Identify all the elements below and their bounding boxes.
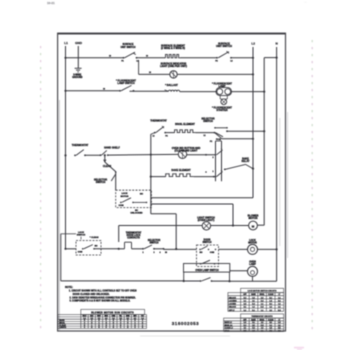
svg-text:X-2: X-2 <box>278 301 281 303</box>
oven light lamp DS3 <box>202 222 210 230</box>
wire: oven light row left corner <box>118 226 120 243</box>
svg-text:P1: P1 <box>121 61 123 63</box>
svg-text:BROIL ELEMENT: BROIL ELEMENT <box>175 123 195 126</box>
wire: lamp row switch to ballast <box>130 90 169 92</box>
surface element (resistor) <box>166 54 181 57</box>
wire: L1 vertical bus <box>65 46 67 249</box>
svg-text:16: 16 <box>146 55 148 57</box>
wire: lock box stub at top of feed <box>61 233 76 235</box>
svg-text:4: 4 <box>160 251 161 254</box>
wire: center bus bottom jog <box>151 213 176 215</box>
svg-text:X-1: X-1 <box>252 310 255 312</box>
svg-text:X-2: X-2 <box>261 301 264 303</box>
svg-text:LAMP: LAMP <box>249 263 256 266</box>
svg-text:1. CIRCUIT SHOWN WITH ALL CON: 1. CIRCUIT SHOWN WITH ALL CONTROLS SET T… <box>69 290 137 293</box>
svg-text:UNLOCKED: UNLOCKED <box>130 212 143 214</box>
svg-text:* CLEAN: * CLEAN <box>90 236 99 239</box>
svg-text:COM: COM <box>210 252 215 254</box>
wire: L2 vertical bus <box>252 47 254 198</box>
wire: blower to neutral branch corner <box>257 224 264 226</box>
svg-text:2: 2 <box>134 327 135 329</box>
junction feed at lamp-switch box left drop <box>183 280 185 282</box>
scan artifact: faint line below sheet <box>140 335 230 337</box>
svg-text:1: 1 <box>84 327 85 329</box>
junction on L1 at door-lock row <box>64 248 66 250</box>
svg-text:1-1: 1-1 <box>278 297 281 299</box>
svg-text:(2 WIRE & 3 WIRE B): (2 WIRE & 3 WIRE B) <box>161 47 185 50</box>
svg-text:L2: L2 <box>251 42 255 46</box>
svg-text:SWITCH: SWITCH <box>203 120 213 123</box>
svg-text:X-1: X-1 <box>252 322 255 324</box>
svg-text:SWITCH: SWITCH <box>77 235 86 237</box>
wire: oven light row middle <box>211 225 249 227</box>
svg-text:1-1: 1-1 <box>270 325 272 327</box>
door lock switch box (dashed) <box>76 241 101 256</box>
junction return line at lamp-switch drop <box>228 280 230 282</box>
svg-text:L1: L1 <box>203 135 205 137</box>
svg-text:X-1: X-1 <box>269 304 272 306</box>
svg-text:(OVEN LIGHT): (OVEN LIGHT) <box>198 219 215 222</box>
svg-text:(CLEAN) IND LIGHT: (CLEAN) IND LIGHT <box>175 149 198 152</box>
svg-text:1-2: 1-2 <box>252 307 255 309</box>
svg-text:THERMOSTAT: THERMOSTAT <box>150 120 167 123</box>
svg-text:2: 2 <box>213 157 214 159</box>
svg-text:LOCK MOTOR SWITCH CIRCUITS: LOCK MOTOR SWITCH CIRCUITS <box>248 291 278 293</box>
svg-text:SWITCH: SWITCH <box>96 181 106 184</box>
wire: oven lamp switch feed (horizontal run) <box>61 280 184 282</box>
junction on L1 at thermostat row <box>64 154 66 156</box>
wire: jog down to door-lock row <box>175 214 177 249</box>
svg-text:LOCKING: LOCKING <box>229 301 237 303</box>
svg-text:1-2: 1-2 <box>278 304 281 306</box>
svg-text:P4: P4 <box>165 135 167 138</box>
svg-text:UNIT SWITCH: UNIT SWITCH <box>216 45 232 48</box>
wire: N vertical bus <box>276 47 278 281</box>
broil element (resistor) <box>165 132 174 134</box>
surface indicator light DS1 <box>170 71 177 78</box>
svg-text:X-1: X-1 <box>269 297 272 299</box>
junction center bus at oven-ind row <box>150 154 152 156</box>
svg-text:UNIT SWITCH: UNIT SWITCH <box>120 47 135 49</box>
oven lamp switch contact on return line <box>184 280 201 282</box>
svg-text:X-1: X-1 <box>244 307 247 309</box>
svg-text:STARTER: STARTER <box>216 109 228 112</box>
oven indicator light DS2 <box>178 150 186 158</box>
junction drop at oven light row <box>232 224 234 226</box>
junction jog at door-lock row <box>175 248 177 250</box>
svg-text:DOOR CLOSED AND UNLOCKED.: DOOR CLOSED AND UNLOCKED. <box>73 293 110 296</box>
junction relay arm at L2 <box>252 168 254 170</box>
svg-text:LT: LT <box>278 319 280 321</box>
svg-text:2-1: 2-1 <box>244 328 246 330</box>
scan artifact: right margin dotted crease <box>312 40 313 42</box>
wire: top bus between switch and element <box>137 57 166 59</box>
svg-text:BLOWER MOTOR RUN CIRCUITS: BLOWER MOTOR RUN CIRCUITS <box>91 312 134 314</box>
junction top bus at L2 <box>252 57 254 59</box>
svg-text:BROIL: BROIL <box>260 294 265 296</box>
svg-text:LT 2-3: LT 2-3 <box>225 330 230 332</box>
svg-text:2-2: 2-2 <box>261 297 264 299</box>
legend table column header smears <box>59 316 144 330</box>
oven relay arm to L2 <box>224 169 226 171</box>
svg-text:1-2: 1-2 <box>244 310 247 312</box>
svg-text:X-2: X-2 <box>269 322 272 324</box>
svg-text:THERMOSTAT CIRCUITS: THERMOSTAT CIRCUITS <box>251 315 273 318</box>
svg-text:RELAY: RELAY <box>242 160 250 163</box>
wire: top bus to L2 <box>231 57 253 59</box>
svg-text:2-1: 2-1 <box>252 301 255 303</box>
junction blower drop at row <box>118 248 120 250</box>
svg-text:316002053: 316002053 <box>172 321 199 326</box>
svg-text:P2: P2 <box>210 141 212 143</box>
door lock motor B2 <box>248 244 258 254</box>
svg-text:2. 18/16 DENOTES WIREGAUGE CO: 2. 18/16 DENOTES WIREGAUGE CONNECTOR P/N… <box>70 296 137 299</box>
svg-text:19-21: 19-21 <box>47 1 55 5</box>
svg-text:1: 1 <box>143 252 144 254</box>
svg-text:HAND SHELF: HAND SHELF <box>104 146 120 149</box>
svg-text:OFF: OFF <box>243 294 246 296</box>
svg-text:1: 1 <box>120 327 121 329</box>
svg-text:1-1: 1-1 <box>261 330 263 332</box>
blower motor B1 <box>249 221 258 230</box>
svg-text:2-1: 2-1 <box>278 307 281 309</box>
junction lamp row at neutral branch <box>263 91 265 93</box>
svg-text:L1: L1 <box>64 41 68 45</box>
svg-text:18: 18 <box>109 55 111 57</box>
svg-text:MOTOR: MOTOR <box>121 196 129 198</box>
svg-text:BAKE ELEMENT: BAKE ELEMENT <box>171 169 191 172</box>
svg-text:OFF: OFF <box>243 319 246 321</box>
scan artifact: pink smudge bottom margin <box>294 347 304 349</box>
svg-text:1-1: 1-1 <box>261 310 264 312</box>
svg-text:LAMP SWITCH: LAMP SWITCH <box>117 82 134 85</box>
svg-text:LOCKED: LOCKED <box>229 304 237 306</box>
svg-text:X-2: X-2 <box>244 325 247 327</box>
scan ghost: doubled left frame line <box>58 100 60 331</box>
svg-text:1-1: 1-1 <box>261 304 264 306</box>
svg-text:LIGHT (ONE PER UNIT): LIGHT (ONE PER UNIT) <box>160 65 187 68</box>
svg-text:VOLT: VOLT <box>82 316 86 318</box>
oven lamp DS4 <box>248 266 258 276</box>
wire: lamp switch box drop <box>229 272 231 281</box>
svg-text:18: 18 <box>149 72 151 74</box>
svg-text:NO: NO <box>140 194 144 196</box>
svg-text:SURFACE: SURFACE <box>123 43 134 46</box>
hand shelf interlock contacts <box>100 154 102 156</box>
svg-text:UNLOCK: UNLOCK <box>229 297 237 299</box>
wire: oven lamp bottom to return line <box>252 276 254 281</box>
wire: bake element to relay <box>194 176 216 178</box>
svg-text:GND: GND <box>75 41 83 45</box>
svg-text:1-2: 1-2 <box>261 328 263 330</box>
svg-text:L1: L1 <box>152 136 154 138</box>
wire: bake row from center bus <box>151 176 166 178</box>
wire: ballast to fluorescent lamp <box>180 91 216 93</box>
svg-text:X-2: X-2 <box>252 304 255 306</box>
fluorescent starter FS1 <box>219 96 221 99</box>
svg-text:X-2: X-2 <box>252 328 255 330</box>
svg-text:3: 3 <box>154 252 155 254</box>
wire: thermostat row segment <box>85 154 101 156</box>
wire: oven lamp switch feed from lock area (vertical) <box>60 234 62 281</box>
lock motor switch box (dashed) <box>116 190 152 207</box>
svg-text:SWITCH: SWITCH <box>202 242 211 244</box>
wire: indicator to relay <box>187 154 216 156</box>
junction neutral link at N <box>276 57 278 59</box>
junction lock motor row at N <box>276 248 278 250</box>
svg-text:P2: P2 <box>215 60 217 62</box>
svg-text:1-2: 1-2 <box>278 325 280 327</box>
thermal door lock contacts (bump) <box>119 248 125 250</box>
svg-text:SWITCH: SWITCH <box>149 242 158 244</box>
svg-text:* BALLAST: * BALLAST <box>165 84 178 87</box>
wire: lock box lower exit to blower drop <box>151 203 233 205</box>
fluorescent lamp switch S2 <box>119 90 121 92</box>
svg-text:COM: COM <box>119 205 124 207</box>
wire: row to selector contacts <box>132 248 144 250</box>
svg-text:BROIL: BROIL <box>260 319 265 321</box>
surface unit switch S1 (L2 pole) <box>216 57 218 59</box>
wire: row to door switch box <box>164 248 197 250</box>
junction jog at L2 <box>252 138 254 140</box>
svg-text:2-2: 2-2 <box>269 310 272 312</box>
wire: lamp row to neutral branch <box>232 91 265 93</box>
door switch box (dashed) <box>197 245 219 267</box>
wire: row through box to junction <box>94 248 119 250</box>
wire: lamp row from box to oven lamp <box>230 270 248 272</box>
junction on L1 at top bus <box>64 57 66 59</box>
svg-text:X-2: X-2 <box>244 297 247 299</box>
svg-text:GROUND: GROUND <box>72 77 83 79</box>
svg-text:LAMP: LAMP <box>219 85 226 88</box>
ground symbol <box>75 67 82 69</box>
svg-text:1: 1 <box>213 171 214 173</box>
svg-text:2-2: 2-2 <box>278 330 280 332</box>
wire: broil row continues to neutral branch <box>227 130 264 132</box>
svg-text:WHT: WHT <box>97 316 101 318</box>
junction indicator row at L2 <box>252 73 254 75</box>
oven lamp switch box <box>184 264 230 273</box>
wire: clean branch from thermostat row <box>104 154 106 156</box>
bake element (resistor) <box>166 174 194 177</box>
fluorescent lamp FL1 <box>216 88 232 96</box>
oven relay K1 (contact stack) <box>215 141 217 181</box>
svg-text:COM: COM <box>78 252 83 254</box>
svg-text:2: 2 <box>106 327 107 329</box>
svg-text:CONTACTS: CONTACTS <box>127 236 140 239</box>
svg-text:OFF LT: OFF LT <box>229 310 236 312</box>
svg-text:YEL: YEL <box>119 316 122 318</box>
wire: top bus row (L1 to surface switch) <box>66 57 124 59</box>
thermostat circuits table (right lower) <box>224 314 284 332</box>
svg-text:18: 18 <box>103 88 105 90</box>
wire: lock motor to N <box>258 248 277 250</box>
wire: neutral branch to N link <box>264 57 276 59</box>
scan artifact: left margin dotted crease <box>40 46 41 48</box>
wire: door switch to lock motor <box>219 248 248 250</box>
wire: N return line bottom <box>230 280 277 282</box>
wire: lock box to L2 (upper exit) <box>151 197 253 199</box>
wire: neutral branch vertical <box>263 58 265 226</box>
svg-text:1-1: 1-1 <box>244 301 247 303</box>
wiring legend table (bottom left) <box>58 309 147 328</box>
svg-text:X-2: X-2 <box>269 330 272 332</box>
svg-text:LOCK: LOCK <box>121 193 128 195</box>
wire: drop from surface switch to indicator row <box>138 60 140 74</box>
wire: broil row to selector <box>195 132 214 134</box>
wire: drop to oven light row <box>232 204 234 226</box>
wire: selector to L2 jog <box>215 133 222 139</box>
wire: lamp row from L1 <box>66 90 121 92</box>
svg-text:MOTOR: MOTOR <box>248 217 257 220</box>
thermostat switch (left) on oven row <box>74 155 76 157</box>
wire: indicator row to L2 <box>177 73 253 75</box>
svg-text:LT: LT <box>278 294 280 296</box>
svg-text:L2: L2 <box>230 60 232 62</box>
svg-text:OVEN LAMP SWITCH: OVEN LAMP SWITCH <box>195 269 219 272</box>
junction broil row at neutral branch <box>263 130 265 132</box>
wire: row to center bus <box>108 154 151 157</box>
junction center bus at bake row <box>150 176 152 178</box>
svg-text:MOTOR: MOTOR <box>248 243 257 245</box>
scan ghost: doubled N line <box>279 118 281 246</box>
surface unit switch S1 (L1 pole) <box>123 57 125 59</box>
wire: oven indicator row <box>151 153 178 155</box>
svg-text:LIGHTS: LIGHTS <box>59 327 67 329</box>
svg-text:16: 16 <box>165 252 167 254</box>
border frame of schematic sheet <box>58 33 286 331</box>
svg-text:....: .... <box>304 1 307 4</box>
svg-text:3. COMPONENTS A & B NOT SHOWN: 3. COMPONENTS A & B NOT SHOWN ON ALL MOD… <box>70 299 131 302</box>
svg-text:1-2: 1-2 <box>269 307 272 309</box>
wire: GND stub <box>77 46 79 68</box>
svg-text:GRY: GRY <box>133 316 136 318</box>
svg-text:UNLOCK: UNLOCK <box>229 307 237 309</box>
svg-text:P6 N1: P6 N1 <box>216 139 221 141</box>
scan ghost: doubled right frame line <box>287 112 289 258</box>
svg-text:THERMOSTAT: THERMOSTAT <box>72 144 89 147</box>
wire: thermostat left pin drop to center bus <box>150 134 152 214</box>
wire: box left drop to return line <box>183 272 185 281</box>
wire: surface indicator row <box>139 73 170 75</box>
svg-text:2-2: 2-2 <box>261 322 263 324</box>
wire: door-lock row from L1 <box>66 248 77 250</box>
svg-text:NOTE:: NOTE: <box>65 286 73 289</box>
wire: top bus between element and right switch <box>181 57 218 59</box>
ballast L1 (inductor) <box>168 90 179 91</box>
lock motor switch table (right upper) <box>228 288 284 311</box>
junction on L1 at lamp row <box>64 90 66 92</box>
